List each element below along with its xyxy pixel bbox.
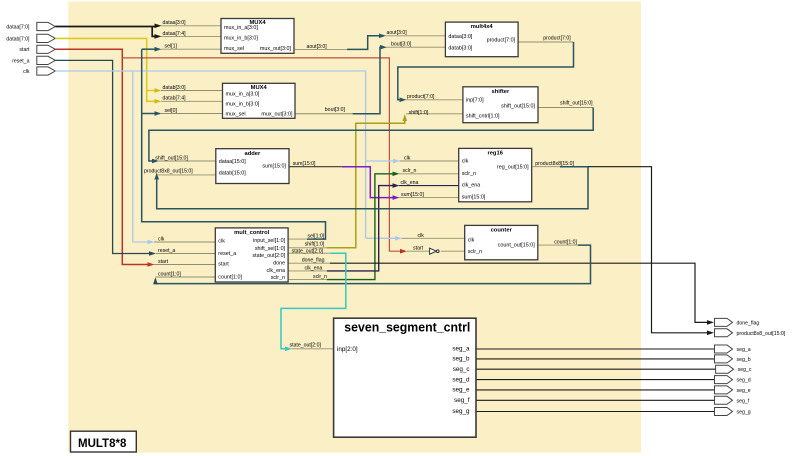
adder block bbox=[216, 149, 289, 184]
svg-text:count[1:0]: count[1:0] bbox=[218, 274, 242, 280]
svg-text:sum[15:0]: sum[15:0] bbox=[262, 164, 286, 170]
wire product[7:0] from mult4x4 to shifter bbox=[518, 41, 573, 43]
svg-text:start: start bbox=[218, 262, 229, 268]
svg-text:datab[3:0]: datab[3:0] bbox=[448, 45, 472, 51]
wire done_flag (black) from mult_control to port bbox=[288, 262, 330, 264]
wire state_out[2:0] (cyan) from mult_control to seven_segment_cntrl bbox=[288, 252, 330, 254]
svg-text:inp[2:0]: inp[2:0] bbox=[337, 346, 358, 353]
wire seg_f bbox=[476, 399, 715, 401]
svg-text:state_out[2:0]: state_out[2:0] bbox=[290, 343, 322, 349]
svg-text:mux_in_a[3:0]: mux_in_a[3:0] bbox=[226, 91, 260, 97]
svg-text:adder: adder bbox=[245, 151, 262, 157]
svg-text:start: start bbox=[19, 47, 30, 53]
svg-text:clk: clk bbox=[23, 69, 30, 75]
svg-text:shift_out[15:0]: shift_out[15:0] bbox=[560, 101, 593, 107]
wire clk_ena (dark navy) from mult_control to reg16 bbox=[288, 270, 327, 272]
svg-text:datab[7:4]: datab[7:4] bbox=[163, 96, 187, 102]
svg-text:sclr_n: sclr_n bbox=[271, 275, 285, 281]
svg-text:done_flag: done_flag bbox=[302, 258, 325, 264]
svg-text:dataa[7:0]: dataa[7:0] bbox=[6, 24, 30, 30]
svg-text:seg_b: seg_b bbox=[452, 356, 470, 363]
svg-text:seg_b: seg_b bbox=[737, 357, 751, 363]
inverter (NOT) on counter sclr_n bbox=[430, 248, 437, 254]
svg-text:clk: clk bbox=[158, 237, 165, 243]
svg-text:clk: clk bbox=[462, 158, 469, 164]
svg-text:shift_sel[1:0]: shift_sel[1:0] bbox=[255, 246, 286, 252]
svg-text:seg_g: seg_g bbox=[737, 410, 751, 416]
svg-text:shift_cntrl[1:0]: shift_cntrl[1:0] bbox=[466, 113, 500, 119]
svg-text:mux_sel: mux_sel bbox=[224, 46, 244, 52]
svg-text:seg_c: seg_c bbox=[738, 367, 752, 373]
output port seg_e bbox=[715, 386, 751, 394]
svg-text:clk_ena: clk_ena bbox=[305, 265, 323, 271]
node datab[7:4] arrow bbox=[155, 99, 162, 104]
svg-text:aout[3:0]: aout[3:0] bbox=[387, 30, 408, 36]
svg-text:aout[3:0]: aout[3:0] bbox=[307, 44, 328, 50]
svg-text:mux_in_a[3:0]: mux_in_a[3:0] bbox=[224, 25, 258, 31]
node datab[3:0] arrow bbox=[155, 88, 162, 93]
reg16 block bbox=[459, 148, 532, 201]
svg-text:reset_a: reset_a bbox=[158, 248, 175, 254]
svg-text:inp[7:0]: inp[7:0] bbox=[466, 98, 484, 104]
svg-text:clk: clk bbox=[468, 237, 475, 243]
svg-text:dataa[7:4]: dataa[7:4] bbox=[163, 31, 187, 37]
node clk arrow at mult_control bbox=[148, 240, 155, 245]
svg-text:seg_c: seg_c bbox=[453, 366, 470, 373]
wire seg_d bbox=[476, 379, 715, 381]
svg-text:start: start bbox=[158, 259, 169, 265]
svg-text:seven_segment_cntrl: seven_segment_cntrl bbox=[344, 321, 470, 335]
svg-text:clk: clk bbox=[418, 233, 425, 239]
svg-text:seg_d: seg_d bbox=[737, 378, 751, 384]
output port seg_f bbox=[715, 396, 750, 404]
svg-text:product8x8_out[15:0]: product8x8_out[15:0] bbox=[737, 331, 786, 337]
svg-text:MULT8*8: MULT8*8 bbox=[78, 438, 127, 450]
svg-text:seg_f: seg_f bbox=[737, 398, 750, 404]
output port seg_a bbox=[715, 345, 751, 353]
svg-text:reg_out[15:0]: reg_out[15:0] bbox=[497, 164, 529, 170]
node sel[0] arrow bbox=[155, 111, 162, 116]
output port done_flag bbox=[715, 318, 760, 326]
wire datab bus (yellow) bbox=[55, 38, 155, 101]
svg-text:sum[15:0]: sum[15:0] bbox=[293, 161, 316, 167]
svg-text:state_out[2:0]: state_out[2:0] bbox=[292, 248, 324, 254]
svg-text:mult_control: mult_control bbox=[234, 230, 269, 236]
svg-text:seg_d: seg_d bbox=[452, 376, 470, 383]
svg-text:clk: clk bbox=[218, 239, 225, 245]
svg-text:sclr_n: sclr_n bbox=[468, 249, 482, 255]
MUX4 U2 (lower) bbox=[223, 83, 296, 118]
wire seg_e bbox=[476, 389, 715, 391]
svg-text:sum[15:0]: sum[15:0] bbox=[401, 192, 424, 198]
svg-text:sclr_n: sclr_n bbox=[313, 274, 327, 280]
svg-text:sum[15:0]: sum[15:0] bbox=[462, 195, 486, 201]
svg-text:sclr_n: sclr_n bbox=[403, 168, 417, 174]
node clk arrow at counter bbox=[366, 237, 397, 239]
svg-text:datab[15:0]: datab[15:0] bbox=[219, 171, 246, 177]
svg-text:bout[3:0]: bout[3:0] bbox=[391, 42, 412, 48]
svg-text:seg_g: seg_g bbox=[452, 408, 470, 415]
wire seg_a bbox=[476, 348, 715, 350]
node start arrow at counter bbox=[400, 249, 407, 254]
wire start (red) to mult_control bbox=[55, 49, 149, 264]
svg-text:mux_in_b[3:0]: mux_in_b[3:0] bbox=[224, 35, 258, 41]
svg-text:shift_out[15:0]: shift_out[15:0] bbox=[501, 103, 535, 109]
svg-text:sel[0]: sel[0] bbox=[165, 108, 178, 114]
svg-text:bout[3:0]: bout[3:0] bbox=[325, 107, 346, 113]
mult4x4 block bbox=[445, 22, 518, 57]
svg-text:datab[7:0]: datab[7:0] bbox=[6, 36, 30, 42]
MUX4 U1 (top) bbox=[221, 19, 294, 54]
wire seg_g bbox=[476, 411, 715, 413]
wire bout[3:0] from MUX4 U2 to mult4x4 bbox=[295, 113, 353, 115]
svg-text:seg_a: seg_a bbox=[737, 347, 751, 353]
svg-text:dataa[3:0]: dataa[3:0] bbox=[448, 34, 472, 40]
svg-text:clk_ena: clk_ena bbox=[267, 268, 286, 274]
wire seg_c bbox=[476, 368, 716, 370]
wire product8x8[15:0] from reg16: feedback to adder + output port bbox=[532, 166, 560, 168]
svg-text:mux_sel: mux_sel bbox=[226, 112, 246, 118]
seven_segment_cntrl block bbox=[334, 318, 476, 437]
svg-text:state_out[2:0]: state_out[2:0] bbox=[252, 253, 285, 259]
svg-text:clk_ena: clk_ena bbox=[462, 182, 481, 188]
output port seg_g bbox=[715, 408, 751, 416]
svg-text:shifter: shifter bbox=[492, 89, 510, 95]
svg-text:dataa[3:0]: dataa[3:0] bbox=[163, 20, 187, 26]
svg-text:reg16: reg16 bbox=[487, 151, 503, 157]
node dataa[3:0] arrow bbox=[155, 24, 162, 29]
wire start branch (red) long run to counter bbox=[122, 58, 401, 251]
wire product8x8_out to port (black) bbox=[588, 167, 709, 333]
svg-text:clk_ena: clk_ena bbox=[401, 180, 419, 186]
input port clk bbox=[23, 67, 55, 75]
node clk arrow at reg16 bbox=[366, 160, 395, 162]
wire sclr_n (green) from mult_control to reg16 bbox=[288, 279, 327, 281]
svg-text:product[7:0]: product[7:0] bbox=[543, 36, 571, 42]
shifter block bbox=[463, 87, 538, 123]
svg-text:mult4x4: mult4x4 bbox=[471, 24, 494, 30]
wire count[1:0] from counter back to mult_control bbox=[538, 244, 578, 246]
svg-text:reset_a: reset_a bbox=[12, 58, 29, 64]
wire dataa bus (black) bbox=[55, 27, 156, 37]
wire clk (light blue) main bbox=[55, 71, 365, 242]
wire sel[1:0] (teal) from mult_control bbox=[288, 238, 307, 240]
input port dataa[7:0] bbox=[6, 22, 55, 30]
svg-text:input_sel[1:0]: input_sel[1:0] bbox=[253, 238, 286, 244]
svg-text:count[1:0]: count[1:0] bbox=[158, 271, 181, 277]
output port seg_b bbox=[715, 355, 751, 363]
schematic background panel bbox=[68, 2, 641, 453]
wire sum[15:0] from adder to reg16 (purple) bbox=[289, 166, 342, 168]
svg-text:reset_a: reset_a bbox=[218, 251, 236, 257]
svg-text:mux_out[3:0]: mux_out[3:0] bbox=[261, 112, 293, 118]
input port datab[7:0] bbox=[6, 34, 55, 42]
node sel[1] arrow bbox=[155, 47, 162, 52]
svg-text:count[1:0]: count[1:0] bbox=[554, 240, 577, 246]
wire seg_b bbox=[476, 358, 715, 360]
svg-text:mux_in_b[3:0]: mux_in_b[3:0] bbox=[226, 102, 260, 108]
svg-text:datab[3:0]: datab[3:0] bbox=[163, 85, 187, 91]
svg-text:product[7:0]: product[7:0] bbox=[487, 37, 516, 43]
svg-text:product8x8_out[15:0]: product8x8_out[15:0] bbox=[144, 168, 193, 174]
svg-text:seg_e: seg_e bbox=[737, 388, 751, 394]
svg-text:seg_a: seg_a bbox=[452, 346, 470, 353]
output port seg_d bbox=[715, 376, 751, 384]
output port seg_c bbox=[716, 365, 752, 373]
counter block bbox=[465, 225, 538, 259]
svg-text:counter: counter bbox=[491, 228, 513, 234]
mult_control block bbox=[215, 228, 288, 282]
wire aout[3:0] from MUX4 U1 to mult4x4 bbox=[294, 48, 347, 50]
svg-text:count_out[15:0]: count_out[15:0] bbox=[498, 243, 536, 249]
svg-text:sel[1]: sel[1] bbox=[165, 44, 178, 50]
wire shift[1:0] (olive) from mult_control to shifter bbox=[288, 247, 327, 249]
svg-text:done: done bbox=[273, 261, 285, 267]
svg-text:shift[1:0]: shift[1:0] bbox=[305, 241, 325, 247]
output port product8x8_out[15:0] bbox=[715, 329, 786, 337]
svg-text:dataa[15:0]: dataa[15:0] bbox=[219, 159, 246, 165]
input port start bbox=[19, 45, 55, 53]
svg-text:clk: clk bbox=[404, 155, 411, 161]
svg-text:mux_out[3:0]: mux_out[3:0] bbox=[260, 46, 292, 52]
svg-text:done_flag: done_flag bbox=[737, 320, 760, 326]
svg-text:seg_e: seg_e bbox=[452, 387, 470, 394]
node dataa[7:4] arrow bbox=[155, 34, 162, 39]
svg-text:product[7:0]: product[7:0] bbox=[407, 94, 435, 100]
svg-text:shift[1:0]: shift[1:0] bbox=[409, 110, 429, 116]
wire reset_a (dark) bbox=[55, 60, 150, 253]
wire shift_out[15:0] from shifter to adder bbox=[538, 107, 593, 109]
input port reset_a bbox=[12, 56, 55, 64]
svg-text:sclr_n: sclr_n bbox=[462, 171, 476, 177]
svg-text:MUX4: MUX4 bbox=[251, 85, 268, 91]
svg-text:seg_f: seg_f bbox=[454, 397, 470, 404]
svg-text:shift_out[15:0]: shift_out[15:0] bbox=[155, 155, 188, 161]
MULT8*8 label box bbox=[71, 431, 137, 452]
